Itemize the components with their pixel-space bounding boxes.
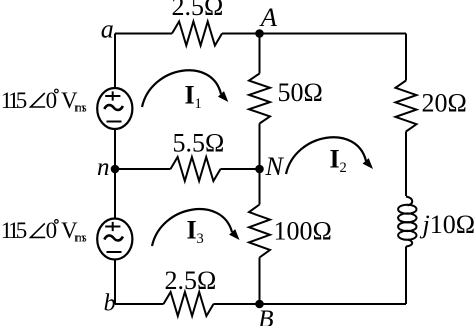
svg-text:2: 2 xyxy=(340,160,347,176)
svg-text:b: b xyxy=(104,291,116,317)
svg-text:I: I xyxy=(330,145,340,174)
svg-text:115: 115 xyxy=(1,218,28,243)
svg-text:50Ω: 50Ω xyxy=(278,78,323,107)
svg-text:a: a xyxy=(101,15,114,44)
svg-text:N: N xyxy=(265,152,285,181)
svg-text:2.5Ω: 2.5Ω xyxy=(172,0,224,21)
svg-text:100Ω: 100Ω xyxy=(274,217,332,246)
svg-text:rms: rms xyxy=(74,231,87,245)
svg-text:0: 0 xyxy=(46,218,58,243)
svg-text:A: A xyxy=(259,2,278,32)
svg-text:j10Ω: j10Ω xyxy=(420,210,474,239)
svg-text:I: I xyxy=(185,81,195,110)
svg-text:1: 1 xyxy=(195,96,202,112)
svg-text:n: n xyxy=(97,154,110,181)
svg-text:rms: rms xyxy=(74,100,87,114)
svg-text:2.5Ω: 2.5Ω xyxy=(165,266,217,295)
svg-text:115: 115 xyxy=(1,88,28,113)
svg-text:5.5Ω: 5.5Ω xyxy=(173,129,225,158)
svg-text:B: B xyxy=(258,306,273,326)
svg-text:3: 3 xyxy=(197,231,204,247)
svg-text:I: I xyxy=(187,216,197,245)
svg-text:0: 0 xyxy=(46,88,58,113)
svg-text:20Ω: 20Ω xyxy=(422,89,467,118)
